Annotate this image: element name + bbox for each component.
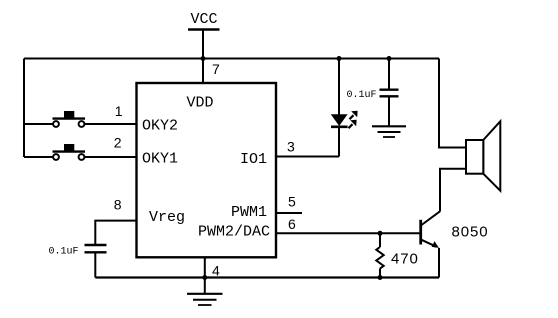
wire: left bus bbox=[23, 59, 25, 158]
wire: bottom rail bbox=[95, 276, 439, 278]
pin 4 label bbox=[212, 263, 220, 279]
capacitor C2 bbox=[85, 245, 107, 278]
wire: left bus to S1 bbox=[24, 123, 53, 125]
svg-text:8: 8 bbox=[114, 197, 122, 213]
pushbutton S1 bbox=[53, 111, 86, 127]
pin 4 lead bbox=[204, 257, 206, 277]
IC label PWM2/DAC bbox=[198, 224, 270, 241]
junction: R1 / bottom rail bbox=[378, 275, 383, 280]
svg-text:1: 1 bbox=[115, 103, 123, 119]
svg-text:OKY2: OKY2 bbox=[142, 118, 178, 135]
svg-text:8050: 8050 bbox=[452, 224, 489, 241]
transistor Q1 bbox=[421, 211, 440, 248]
svg-text:0.1uF: 0.1uF bbox=[49, 247, 79, 258]
junction: LED / top rail bbox=[337, 56, 342, 61]
svg-text:Vreg: Vreg bbox=[149, 209, 185, 226]
svg-text:5: 5 bbox=[288, 194, 296, 210]
R1 value label 470 bbox=[391, 251, 419, 268]
wire: speaker - to collector bbox=[440, 169, 466, 212]
svg-text:7: 7 bbox=[212, 61, 220, 77]
resistor R1 bbox=[376, 233, 383, 277]
junction: pin4 / bottom rail bbox=[202, 275, 207, 280]
svg-text:2: 2 bbox=[114, 135, 122, 151]
wire: top rail to speaker + bbox=[439, 59, 466, 148]
svg-text:OKY1: OKY1 bbox=[142, 151, 178, 168]
pin 3 label bbox=[287, 139, 295, 155]
LED D1 bbox=[331, 59, 348, 157]
C1 value label 0.1uF bbox=[347, 90, 377, 101]
IC label OKY2 bbox=[142, 118, 178, 135]
wire: left bus to S2 bbox=[24, 156, 53, 158]
svg-text:IO1: IO1 bbox=[240, 151, 267, 168]
svg-text:3: 3 bbox=[287, 139, 295, 155]
IC label OKY1 bbox=[142, 151, 178, 168]
IC U1 body bbox=[137, 83, 277, 257]
svg-text:6: 6 bbox=[288, 216, 296, 232]
Q1 label 8050 bbox=[452, 224, 489, 241]
junction: pin6 / R1 bbox=[378, 231, 383, 236]
IC label VDD bbox=[187, 95, 214, 112]
pin 6 wire bbox=[276, 232, 421, 234]
wire: S1 to pin 1 bbox=[84, 123, 136, 125]
svg-text:VDD: VDD bbox=[187, 95, 214, 112]
LED D1 emission arrows bbox=[349, 111, 358, 128]
pin 1 label bbox=[115, 103, 123, 119]
pin 7 lead bbox=[202, 59, 204, 85]
ground: main bbox=[187, 278, 223, 306]
ground: C1 bbox=[372, 126, 406, 137]
pin 3 wire bbox=[276, 156, 339, 158]
IC label Vreg bbox=[149, 209, 185, 226]
svg-text:0.1uF: 0.1uF bbox=[347, 90, 377, 101]
svg-text:470: 470 bbox=[391, 251, 419, 268]
pin 8 label bbox=[114, 197, 122, 213]
IC label IO1 bbox=[240, 151, 267, 168]
pin 5 stub bbox=[276, 212, 302, 214]
wire: emitter to bottom rail bbox=[438, 248, 440, 278]
svg-text:VCC: VCC bbox=[191, 11, 218, 28]
node VCC bbox=[191, 11, 218, 28]
junction: VCC / top rail bbox=[201, 56, 206, 61]
wire: top rail bbox=[24, 58, 439, 60]
svg-text:PWM1: PWM1 bbox=[231, 204, 267, 221]
VCC power symbol bbox=[188, 30, 220, 59]
svg-text:4: 4 bbox=[212, 263, 220, 279]
C2 value label 0.1uF bbox=[49, 247, 79, 258]
capacitor C1 bbox=[380, 59, 399, 127]
speaker LS1 bbox=[466, 121, 500, 190]
pin 6 label bbox=[288, 216, 296, 232]
junction: C1 / top rail bbox=[387, 56, 392, 61]
wire: S2 to pin 2 bbox=[84, 156, 136, 158]
pin 2 label bbox=[114, 135, 122, 151]
svg-text:PWM2/DAC: PWM2/DAC bbox=[198, 224, 270, 241]
IC label PWM1 bbox=[231, 204, 267, 221]
pushbutton S2 bbox=[53, 144, 86, 160]
pin 8 wire bbox=[95, 221, 136, 245]
pin 7 label bbox=[212, 61, 220, 77]
pin 5 label bbox=[288, 194, 296, 210]
